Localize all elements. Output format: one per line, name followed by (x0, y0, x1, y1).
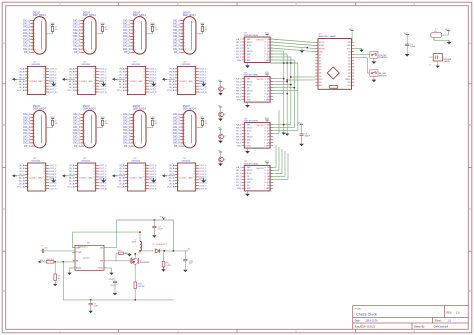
svg-text:(BEEP): (BEEP) (444, 61, 451, 63)
svg-text:C: C (3, 207, 5, 211)
compensation capacitor (41, 245, 77, 253)
svg-text:A4: A4 (348, 63, 350, 66)
svg-text:D8: D8 (319, 73, 321, 75)
svg-text:(PLAYER): (PLAYER) (379, 56, 388, 59)
svg-text:A0: A0 (348, 75, 350, 78)
decoupling capacitor on PSU rail (152, 219, 163, 237)
svg-text:Chris.davidoff: Chris.davidoff (434, 326, 449, 329)
svg-text:D5: D5 (319, 64, 321, 66)
ground under bus 2 (286, 132, 288, 134)
svg-text:A5: A5 (348, 60, 350, 63)
svg-text:C: C (469, 207, 471, 211)
svg-text:uC: uC (429, 64, 432, 66)
svg-text:Chess Clock: Chess Clock (356, 312, 377, 316)
decoupling capacitor C near MCU (404, 33, 417, 57)
BCD decoder/driver U6 (SN74141) (62, 158, 107, 191)
svg-text:+hv: +hv (187, 248, 190, 250)
svg-text:CINP: CINP (76, 248, 81, 250)
input flag VIN and feedback divider (38, 259, 77, 263)
svg-text:1_2W: 1_2W (166, 265, 171, 267)
svg-text:RESET: RESET (319, 48, 326, 50)
svg-text:A: A (469, 41, 471, 45)
svg-text:EasyEDA V5.8.22: EasyEDA V5.8.22 (355, 325, 376, 329)
svg-text:D7: D7 (319, 70, 321, 72)
svg-text:D1/TX: D1/TX (319, 42, 325, 44)
svg-text:D?: D? (153, 244, 155, 246)
IC grounds (67, 268, 72, 275)
svg-text:D: D (469, 289, 471, 293)
svg-text:VIN_1: VIN_1 (40, 260, 45, 262)
wire PSU top loop (72, 220, 173, 251)
decoupling capacitor C near bus (298, 123, 311, 147)
resistor R low-side of divider (53, 262, 60, 286)
ground flag on MCU GND wire (300, 48, 304, 53)
shift register U9 (74HC595) (236, 33, 273, 68)
buzzer LS1 (429, 54, 452, 68)
BCD decoder/driver U5 (SN74141) (12, 158, 57, 191)
svg-text:1/1: 1/1 (448, 320, 452, 323)
resistor R gate (30.9k) (104, 250, 131, 261)
svg-text:1k: 1k (58, 278, 60, 280)
push button SW2 RESET (370, 70, 378, 82)
svg-text:VCC: VCC (445, 29, 450, 31)
MOSFET Q5 (118, 253, 150, 282)
shift register U10 (74HC595) (236, 72, 273, 107)
power connector P1 (DC jack) (431, 29, 451, 45)
bottom rail wire (63, 262, 173, 301)
svg-text:AREF: AREF (346, 78, 352, 81)
wire bus between shift registers and MCU (271, 39, 316, 43)
BCD decoder/driver U7 (SN74141) (112, 158, 157, 191)
svg-text:Sheet:: Sheet: (435, 320, 442, 323)
svg-text:B: B (469, 123, 471, 127)
svg-text:A1: A1 (348, 72, 350, 75)
svg-text:AGND: AGND (76, 267, 82, 270)
MCU U13 Arduino Nano (315, 34, 354, 90)
svg-text:C?: C? (41, 245, 43, 247)
svg-text:(1uF): (1uF) (111, 285, 116, 287)
svg-text:1.0: 1.0 (456, 312, 460, 315)
sense resistor R 0.05 (161, 251, 170, 272)
svg-text:+: + (181, 257, 182, 259)
svg-text:GND: GND (346, 45, 351, 47)
VCC flag above MCU (349, 29, 354, 43)
bulk capacitor on rail (89, 300, 99, 313)
svg-text:(RESET): (RESET) (379, 75, 387, 77)
svg-text:A2: A2 (348, 69, 350, 72)
title block (353, 306, 469, 330)
inductor L1 (132, 240, 142, 254)
svg-text:VCC: VCC (160, 217, 165, 219)
nixie tube DS2 (73, 11, 107, 54)
svg-text:A7: A7 (348, 53, 350, 56)
svg-text:3V3: 3V3 (347, 82, 350, 84)
svg-text:U?: U? (87, 243, 91, 245)
transistor Q1 anode driver (218, 80, 226, 96)
svg-text:TITLE:: TITLE: (355, 309, 362, 311)
svg-text:10uF: 10uF (189, 263, 194, 265)
svg-text:A: A (3, 41, 5, 45)
svg-text:10uF: 10uF (94, 306, 99, 308)
svg-text:0.05/1W: 0.05/1W (138, 286, 145, 288)
svg-text:2018-11-28: 2018-11-28 (366, 320, 379, 323)
svg-text:SW: SW (100, 261, 103, 263)
svg-text:D0/RX: D0/RX (319, 45, 325, 47)
svg-text:PGND: PGND (98, 268, 104, 270)
BCD decoder/driver U8 (SN74141) (162, 158, 207, 191)
transistor Q2 anode driver (218, 106, 226, 122)
svg-text:Date:: Date: (355, 320, 361, 323)
svg-text:D4: D4 (319, 61, 321, 63)
ground under bus (283, 132, 285, 133)
ground flag at MCU right (354, 49, 363, 52)
nixie tube DS6 (73, 105, 107, 148)
transistor Q4 anode driver (218, 151, 226, 167)
nixie tube DS5 (23, 105, 57, 148)
nixie tube DS3 (123, 11, 157, 54)
svg-text:COMP: COMP (76, 252, 82, 254)
nixie tube DS4 (173, 11, 207, 54)
COMP capacitor to ground (109, 252, 118, 295)
svg-text:D2: D2 (319, 54, 321, 56)
svg-text:D13: D13 (347, 85, 350, 87)
nixie tube DS7 (123, 105, 157, 148)
svg-text:A3: A3 (348, 66, 350, 69)
svg-text:SIHU6N65E: SIHU6N65E (140, 262, 151, 264)
svg-text:LS?: LS? (429, 57, 432, 59)
push button SW1 PLAYER (370, 52, 378, 64)
svg-text:D3: D3 (319, 58, 321, 60)
svg-text:switcher: switcher (83, 257, 90, 260)
BCD decoder/driver U3 (SN74141) (112, 62, 157, 95)
nixie tube DS1 (23, 11, 57, 54)
diode D1 (139, 244, 190, 253)
IC ground right (107, 268, 114, 275)
output capacitor C10 (181, 251, 194, 272)
svg-text:VCC: VCC (349, 29, 354, 31)
svg-text:D: D (3, 289, 5, 293)
svg-text:REV:: REV: (447, 312, 453, 315)
svg-text:10n: 10n (45, 247, 48, 249)
BCD decoder/driver U2 (SN74141) (62, 62, 107, 95)
svg-text:A6: A6 (348, 57, 350, 60)
BCD decoder/driver U1 (SN74141) (12, 62, 57, 95)
boost converter IC U14 (LM2586) (72, 243, 106, 271)
BCD decoder/driver U4 (SN74141) (162, 62, 207, 95)
svg-text:GND: GND (319, 51, 324, 53)
svg-text:D12: D12 (319, 85, 322, 87)
svg-text:Drawn By:: Drawn By: (414, 326, 425, 329)
svg-text:D9: D9 (319, 76, 321, 78)
nixie tube DS8 (173, 105, 207, 148)
shift register U12 (74HC595) (236, 161, 273, 196)
svg-text:10uF: 10uF (158, 229, 163, 231)
svg-text:D10: D10 (319, 79, 322, 81)
current shunt resistor R05L (134, 282, 145, 300)
transistor Q3 anode driver (218, 128, 226, 143)
svg-text:COMP?: COMP? (109, 279, 115, 281)
svg-text:SS36-E3/57T: SS36-E3/57T (156, 244, 168, 246)
svg-text:30.9: 30.9 (118, 250, 122, 252)
svg-text:FB1_49.9: FB1_49.9 (47, 259, 55, 261)
wire MCU to buttons (354, 55, 370, 73)
svg-text:B: B (3, 123, 5, 127)
svg-text:ARDUINO_NANO: ARDUINO_NANO (319, 35, 337, 38)
svg-text:D11: D11 (319, 82, 322, 84)
svg-text:D6: D6 (319, 67, 321, 69)
svg-text:15uH: 15uH (132, 242, 137, 244)
shift register U11 (74HC595) (236, 118, 273, 153)
VCC flag on PSU top rail (160, 217, 165, 220)
